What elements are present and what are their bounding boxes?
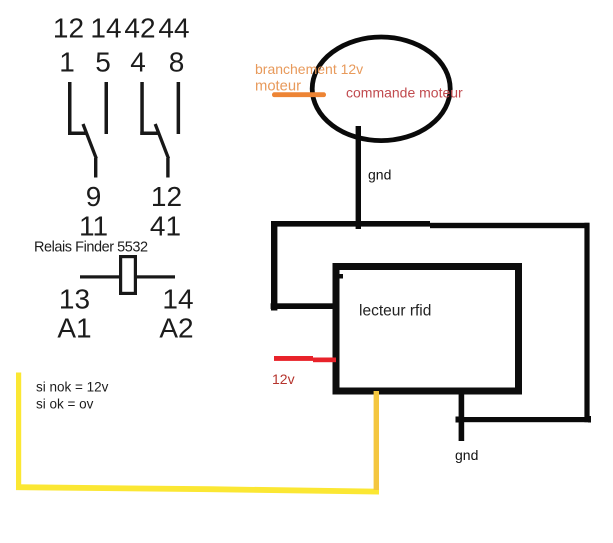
svg-text:A1: A1 [57,313,91,344]
svg-text:12v: 12v [272,371,295,387]
svg-text:gnd: gnd [455,447,478,463]
svg-text:12: 12 [53,13,84,44]
svg-text:9: 9 [86,181,102,212]
svg-text:41: 41 [150,211,181,242]
svg-text:A2: A2 [159,313,193,344]
svg-text:si nok = 12v: si nok = 12v [36,380,109,395]
svg-text:gnd: gnd [368,167,391,183]
svg-text:4: 4 [130,47,146,78]
svg-text:branchement 12v: branchement 12v [255,61,363,77]
svg-text:lecteur rfid: lecteur rfid [359,302,431,319]
svg-text:moteur: moteur [255,78,301,94]
svg-text:si ok = ov: si ok = ov [36,397,94,412]
svg-text:commande moteur: commande moteur [346,85,463,101]
svg-text:44: 44 [158,13,189,44]
svg-text:11: 11 [79,211,108,242]
svg-text:8: 8 [169,47,185,78]
svg-text:14: 14 [162,284,193,315]
svg-text:13: 13 [59,284,90,315]
svg-text:12: 12 [151,181,182,212]
svg-text:42: 42 [124,13,155,44]
svg-text:5: 5 [95,47,111,78]
svg-text:14: 14 [90,13,121,44]
svg-text:Relais Finder 5532: Relais Finder 5532 [34,239,148,255]
svg-text:1: 1 [59,47,75,78]
